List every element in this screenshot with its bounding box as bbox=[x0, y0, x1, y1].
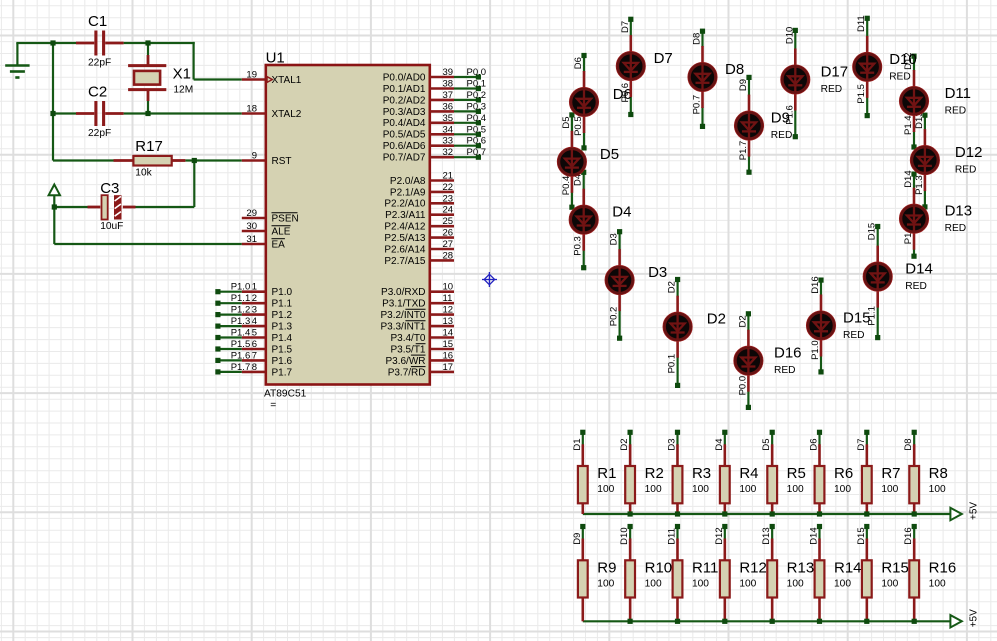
svg-text:100: 100 bbox=[645, 578, 662, 589]
svg-text:21: 21 bbox=[443, 171, 454, 182]
value 10uF (C3) bbox=[100, 221, 123, 232]
net label P1.5 (D10 bottom) bbox=[856, 84, 867, 104]
LED D12 bbox=[910, 129, 939, 191]
svg-text:D16: D16 bbox=[774, 345, 802, 362]
wire net D10 (above D17) bbox=[794, 30, 796, 49]
svg-text:25: 25 bbox=[443, 216, 454, 227]
svg-text:C2: C2 bbox=[88, 83, 107, 100]
value 100 (R13) bbox=[787, 578, 804, 589]
terminal P0.4 (D5 bottom) bbox=[569, 205, 574, 210]
svg-text:ALE: ALE bbox=[272, 226, 291, 237]
terminal P0.7 (D8 bottom) bbox=[700, 124, 705, 129]
svg-text:8: 8 bbox=[252, 362, 257, 373]
terminal P0.6 bbox=[476, 143, 481, 148]
value 12M (X1) bbox=[173, 84, 193, 95]
terminal D16 (D15 top) bbox=[818, 278, 823, 283]
terminal D10 bbox=[628, 524, 633, 529]
svg-text:18: 18 bbox=[246, 104, 257, 115]
resistor R16 leads bbox=[913, 539, 916, 622]
value RED (D11) bbox=[945, 106, 967, 117]
svg-text:17: 17 bbox=[443, 362, 454, 373]
svg-text:D16: D16 bbox=[903, 527, 914, 544]
svg-text:R2: R2 bbox=[645, 465, 664, 482]
svg-text:P2.6/A14: P2.6/A14 bbox=[384, 244, 426, 255]
wire net D16 (above D15) bbox=[820, 280, 822, 295]
svg-text:P1.7: P1.7 bbox=[231, 362, 251, 373]
svg-text:R14: R14 bbox=[834, 559, 862, 576]
label R4 bbox=[739, 465, 758, 482]
net label D7 bbox=[856, 438, 867, 450]
net label P0.4 bbox=[467, 113, 487, 124]
svg-text:P1.1: P1.1 bbox=[272, 299, 293, 310]
net label P0.5 (D6 bottom) bbox=[573, 116, 584, 136]
wire net P0.2 (below D3) bbox=[618, 310, 620, 338]
terminal P1.5 (D10 bottom) bbox=[865, 113, 870, 118]
svg-text:100: 100 bbox=[739, 578, 756, 589]
svg-text:37: 37 bbox=[443, 90, 454, 101]
svg-text:100: 100 bbox=[929, 578, 946, 589]
svg-text:P2.4/A12: P2.4/A12 bbox=[384, 222, 426, 233]
wire net P1.2 (below D13) bbox=[913, 249, 915, 257]
svg-text:22pF: 22pF bbox=[88, 58, 111, 69]
label R15 bbox=[881, 559, 909, 576]
LED D11 bbox=[899, 70, 928, 132]
terminal D9 bbox=[580, 524, 585, 529]
wire C1 right to corner bbox=[124, 42, 195, 44]
U1 right pin numbers bbox=[443, 67, 454, 373]
power terminal +5V (reset) bbox=[49, 185, 60, 208]
ground bbox=[5, 43, 29, 78]
net label P0.6 (D7 bottom) bbox=[620, 83, 631, 103]
terminal P0.0 (D16 bottom) bbox=[746, 405, 751, 410]
svg-text:D4: D4 bbox=[612, 204, 631, 221]
resistor R1 bbox=[578, 466, 588, 503]
LED D10 bbox=[853, 36, 882, 98]
wire net P1.0 (left) bbox=[218, 291, 242, 293]
resistor R7 leads bbox=[866, 444, 869, 514]
svg-text:10k: 10k bbox=[135, 167, 152, 178]
LED D5 bbox=[557, 131, 586, 193]
svg-text:P0.6/AD6: P0.6/AD6 bbox=[383, 141, 426, 152]
terminal P1.6 (D17 bottom) bbox=[793, 134, 798, 139]
svg-text:100: 100 bbox=[834, 484, 851, 495]
svg-text:23: 23 bbox=[443, 193, 454, 204]
svg-text:P3.6/WR: P3.6/WR bbox=[385, 356, 425, 367]
wire net P0.2 (right) bbox=[454, 99, 478, 101]
resistor R17 bbox=[133, 156, 171, 166]
svg-text:RED: RED bbox=[889, 71, 911, 82]
net label P1.4 bbox=[231, 328, 251, 339]
net label D15 bbox=[856, 527, 867, 544]
net label P1.6 (D17 bottom) bbox=[784, 105, 795, 125]
label D12 bbox=[955, 144, 983, 161]
net label P1.3 bbox=[231, 316, 251, 327]
svg-text:P3.5/T1: P3.5/T1 bbox=[390, 344, 425, 355]
resistor R14 leads bbox=[818, 539, 821, 622]
svg-text:RED: RED bbox=[905, 281, 927, 292]
label D4 bbox=[612, 204, 631, 221]
label R3 bbox=[692, 465, 711, 482]
net label D5 (D5 top) bbox=[561, 116, 572, 128]
terminal D2 (D2 top) bbox=[675, 277, 680, 282]
resistor R13 leads bbox=[771, 539, 774, 622]
svg-text:P0.4: P0.4 bbox=[467, 113, 487, 124]
junction R16/bus bbox=[912, 619, 917, 624]
wire net D7 (above D7) bbox=[630, 19, 632, 36]
svg-text:D2: D2 bbox=[737, 315, 748, 327]
terminal P1.2 bbox=[215, 312, 220, 317]
svg-text:P0.5/AD5: P0.5/AD5 bbox=[383, 130, 426, 141]
label R17 bbox=[135, 138, 163, 155]
svg-text:P3.1/TXD: P3.1/TXD bbox=[382, 299, 425, 310]
svg-text:100: 100 bbox=[597, 578, 614, 589]
terminal P1.4 bbox=[215, 335, 220, 340]
capacitor C2 leads bbox=[76, 112, 124, 115]
value 100 (R15) bbox=[881, 578, 898, 589]
U1 right pin stubs bbox=[430, 77, 454, 372]
svg-text:P1.6: P1.6 bbox=[231, 350, 251, 361]
resistor R4 bbox=[720, 466, 730, 503]
terminal P0.7 bbox=[476, 155, 481, 160]
net label P0.0 (D16 bottom) bbox=[737, 376, 748, 396]
junction R6/bus bbox=[817, 511, 822, 516]
svg-text:P3.4/T0: P3.4/T0 bbox=[390, 333, 425, 344]
power terminal +5V (row 2) bbox=[950, 615, 961, 627]
wire net P0.6 (right) bbox=[454, 145, 478, 147]
svg-text:P1.6: P1.6 bbox=[272, 356, 293, 367]
svg-text:RED: RED bbox=[821, 84, 843, 95]
terminal P0.6 (D7 bottom) bbox=[628, 112, 633, 117]
wire C3 row left bbox=[54, 206, 87, 208]
wire net P1.6 (below D17) bbox=[794, 110, 796, 137]
net label P1.6 bbox=[231, 350, 251, 361]
wire crystal bottom bbox=[147, 101, 149, 114]
svg-text:19: 19 bbox=[246, 70, 257, 81]
net label P0.4 (D5 bottom) bbox=[561, 176, 572, 196]
svg-text:PSEN: PSEN bbox=[272, 213, 299, 224]
LED D8 bbox=[688, 46, 717, 108]
net label D16 (D15 top) bbox=[810, 276, 821, 293]
label R11 bbox=[692, 559, 718, 576]
svg-text:R4: R4 bbox=[739, 465, 758, 482]
net label D14 bbox=[809, 527, 820, 544]
net label D1 bbox=[572, 438, 583, 450]
svg-text:13: 13 bbox=[443, 316, 454, 327]
net label D4 (D4 top) bbox=[573, 174, 584, 186]
label C3 bbox=[100, 180, 119, 197]
wire net P0.4 (below D5) bbox=[571, 192, 573, 207]
svg-text:P1.5: P1.5 bbox=[272, 344, 293, 355]
LED D6 bbox=[569, 71, 598, 133]
svg-text:100: 100 bbox=[881, 578, 898, 589]
junction R12/bus bbox=[722, 619, 727, 624]
wire net P0.7 (right) bbox=[454, 156, 478, 158]
svg-text:P1.4: P1.4 bbox=[231, 328, 251, 339]
svg-text:P2.3/A11: P2.3/A11 bbox=[385, 210, 426, 221]
terminal D12 (D11 top) bbox=[911, 54, 916, 59]
svg-text:R17: R17 bbox=[135, 138, 163, 155]
LED D9 bbox=[734, 95, 763, 157]
svg-text:P0.0: P0.0 bbox=[467, 67, 487, 78]
svg-text:P3.3/INT1: P3.3/INT1 bbox=[380, 322, 425, 333]
net label P1.1 (D14 bottom) bbox=[867, 306, 878, 326]
wire XTAL1 row bbox=[194, 78, 242, 80]
net label D7 (D7 top) bbox=[620, 21, 631, 33]
svg-text:RED: RED bbox=[945, 223, 967, 234]
svg-text:33: 33 bbox=[443, 136, 454, 147]
net label D8 (D8 top) bbox=[692, 33, 703, 45]
svg-text:D10: D10 bbox=[619, 527, 630, 544]
wire net D12 (above R12) bbox=[724, 527, 726, 540]
net label D11 (D10 top) bbox=[856, 15, 867, 32]
svg-text:D11: D11 bbox=[666, 528, 677, 545]
value 22pF (C1) bbox=[88, 58, 111, 69]
terminal P1.5 bbox=[215, 346, 220, 351]
net label D11 bbox=[666, 528, 677, 545]
svg-text:XTAL1: XTAL1 bbox=[272, 75, 302, 86]
wire net P1.1 (below D14) bbox=[877, 307, 879, 338]
capacitor C1 bbox=[96, 31, 104, 56]
wire crystal top bbox=[147, 43, 149, 55]
svg-text:32: 32 bbox=[443, 147, 454, 158]
svg-text:P0.0: P0.0 bbox=[737, 376, 748, 396]
net label P0.3 bbox=[467, 101, 487, 112]
value 100 (R16) bbox=[929, 578, 946, 589]
resistor R2 leads bbox=[629, 444, 632, 514]
wire RST junction down bbox=[193, 161, 195, 208]
power terminal +5V (row 1) bbox=[950, 508, 961, 520]
svg-text:D5: D5 bbox=[761, 438, 772, 450]
svg-text:P0.7/AD7: P0.7/AD7 bbox=[383, 153, 426, 164]
terminal P0.3 bbox=[476, 109, 481, 114]
net label P1.7 (D9 bottom) bbox=[738, 141, 749, 161]
wire net D14 (above D13) bbox=[913, 174, 915, 189]
net label P0.3 (D4 bottom) bbox=[573, 236, 584, 256]
terminal D15 bbox=[864, 524, 869, 529]
terminal P0.3 (D4 bottom) bbox=[581, 265, 586, 270]
label R13 bbox=[787, 559, 815, 576]
value 100 (R6) bbox=[834, 484, 851, 495]
svg-text:28: 28 bbox=[443, 250, 454, 261]
svg-text:P1.4: P1.4 bbox=[903, 115, 914, 135]
wire net D2 (above D2) bbox=[676, 280, 678, 297]
value 100 (R10) bbox=[645, 578, 662, 589]
resistor R12 bbox=[720, 560, 730, 597]
label R8 bbox=[929, 465, 948, 482]
terminal D12 bbox=[722, 524, 727, 529]
junction node RST bbox=[192, 158, 197, 163]
svg-text:15: 15 bbox=[443, 339, 454, 350]
wire net P1.5 (left) bbox=[218, 348, 242, 350]
terminal D6 bbox=[817, 430, 822, 435]
svg-text:P1.7: P1.7 bbox=[272, 367, 293, 378]
crystal X1 leads bbox=[147, 55, 150, 101]
svg-text:P1.2: P1.2 bbox=[272, 310, 293, 321]
svg-text:D12: D12 bbox=[714, 527, 725, 544]
svg-text:12: 12 bbox=[443, 305, 454, 316]
svg-text:P0.7: P0.7 bbox=[467, 147, 487, 158]
junction R8/bus bbox=[912, 511, 917, 516]
terminal P1.1 (D14 bottom) bbox=[875, 335, 880, 340]
junction node crystal top bbox=[145, 40, 150, 45]
wire net D3 (above D3) bbox=[618, 232, 620, 250]
wire R17 right to RST bbox=[185, 159, 241, 161]
svg-text:R13: R13 bbox=[787, 559, 815, 576]
terminal D10 (D17 top) bbox=[793, 28, 798, 33]
svg-text:P2.1/A9: P2.1/A9 bbox=[390, 187, 426, 198]
svg-text:D8: D8 bbox=[692, 33, 703, 45]
capacitor C1 leads bbox=[76, 42, 124, 45]
junction node gnd/C1 bbox=[50, 40, 55, 45]
label D5 bbox=[600, 146, 619, 163]
resistor R7 bbox=[862, 466, 872, 503]
svg-text:D6: D6 bbox=[613, 86, 632, 103]
wire net P0.0 (right) bbox=[454, 76, 478, 78]
wire net D7 (above R7) bbox=[866, 432, 868, 445]
terminal P0.5 bbox=[476, 132, 481, 137]
wire net P0.1 (below D2) bbox=[676, 357, 678, 386]
resistor R10 bbox=[625, 560, 635, 597]
svg-text:D1: D1 bbox=[572, 438, 583, 450]
svg-text:1: 1 bbox=[252, 282, 257, 293]
net label P0.6 bbox=[467, 136, 487, 147]
svg-text:11: 11 bbox=[443, 293, 453, 304]
svg-text:RED: RED bbox=[843, 330, 865, 341]
net label D3 bbox=[666, 438, 677, 450]
svg-text:P0.3: P0.3 bbox=[467, 101, 487, 112]
svg-text:35: 35 bbox=[443, 113, 454, 124]
net label D2 bbox=[619, 438, 630, 450]
junction R13/bus bbox=[770, 619, 775, 624]
terminal P1.7 bbox=[215, 369, 220, 374]
capacitor C3 leads bbox=[88, 206, 136, 209]
svg-text:5: 5 bbox=[252, 328, 257, 339]
wire net P1.1 (left) bbox=[218, 302, 242, 304]
net label P0.2 bbox=[467, 90, 487, 101]
svg-text:D14: D14 bbox=[903, 170, 914, 187]
terminal D13 (D12 top) bbox=[922, 113, 927, 118]
svg-text:34: 34 bbox=[443, 124, 454, 135]
value RED (D15) bbox=[843, 330, 865, 341]
svg-text:D9: D9 bbox=[738, 79, 749, 91]
wire net P1.7 (left) bbox=[218, 371, 242, 373]
LED D2 bbox=[663, 296, 692, 358]
svg-text:R8: R8 bbox=[929, 465, 948, 482]
svg-text:36: 36 bbox=[443, 101, 454, 112]
svg-text:P2.7/A15: P2.7/A15 bbox=[384, 256, 426, 267]
label D17 bbox=[821, 64, 849, 81]
value AT89C51 (U1) bbox=[264, 388, 307, 399]
wire net D6 (above R6) bbox=[818, 432, 820, 445]
svg-text:P1.2: P1.2 bbox=[231, 305, 251, 316]
net label P1.0 bbox=[231, 282, 251, 293]
value RED (D16) bbox=[774, 365, 796, 376]
label R1 bbox=[597, 465, 616, 482]
svg-text:D7: D7 bbox=[654, 50, 673, 67]
svg-text:P0.2/AD2: P0.2/AD2 bbox=[383, 95, 426, 106]
wire net D5 (above R5) bbox=[771, 432, 773, 445]
svg-text:12M: 12M bbox=[173, 84, 193, 95]
svg-text:100: 100 bbox=[645, 484, 662, 495]
svg-text:R15: R15 bbox=[881, 559, 909, 576]
svg-text:RED: RED bbox=[945, 106, 967, 117]
wire C2 row left bbox=[53, 112, 76, 114]
terminal D14 (D13 top) bbox=[911, 172, 916, 177]
terminal P0.1 bbox=[476, 86, 481, 91]
svg-text:P0.0/AD0: P0.0/AD0 bbox=[383, 72, 426, 83]
svg-text:D11: D11 bbox=[945, 85, 971, 102]
svg-text:22: 22 bbox=[443, 182, 454, 193]
label D13 bbox=[945, 203, 973, 220]
value RED (D12) bbox=[955, 165, 977, 176]
wire net D12 (above D11) bbox=[913, 56, 915, 71]
resistor R13 bbox=[767, 560, 777, 597]
net label P1.3 (D12 bottom) bbox=[914, 175, 925, 195]
wire RST row left bbox=[53, 159, 114, 161]
net label D3 (D3 top) bbox=[609, 233, 620, 245]
wire net P1.3 (left) bbox=[218, 325, 242, 327]
label D7 bbox=[654, 50, 673, 67]
wire net D1 (above R1) bbox=[582, 432, 584, 445]
svg-text:D3: D3 bbox=[609, 233, 620, 245]
wire left vertical bus bbox=[52, 43, 54, 161]
svg-text:P0.6: P0.6 bbox=[467, 136, 487, 147]
U1 left pin numbers bbox=[246, 70, 257, 373]
label C2 bbox=[88, 83, 107, 100]
wire C3 row right bbox=[136, 206, 195, 208]
wire net D10 (above R10) bbox=[629, 527, 631, 540]
terminal D9 (D9 top) bbox=[746, 75, 751, 80]
net label D13 bbox=[761, 527, 772, 544]
terminal P1.7 (D9 bottom) bbox=[746, 170, 751, 175]
svg-text:100: 100 bbox=[597, 484, 614, 495]
net label P0.7 bbox=[467, 147, 487, 158]
terminal D2 bbox=[628, 430, 633, 435]
crystal X1 bbox=[128, 66, 166, 90]
svg-text:100: 100 bbox=[834, 578, 851, 589]
svg-text:100: 100 bbox=[881, 484, 898, 495]
label D9 bbox=[771, 110, 790, 127]
svg-text:P0.3/AD3: P0.3/AD3 bbox=[383, 107, 426, 118]
svg-text:R7: R7 bbox=[881, 465, 900, 482]
svg-text:24: 24 bbox=[443, 205, 454, 216]
net label P0.7 (D8 bottom) bbox=[692, 95, 703, 115]
net label P0.0 bbox=[467, 67, 487, 78]
svg-text:R3: R3 bbox=[692, 465, 711, 482]
svg-text:RED: RED bbox=[955, 165, 977, 176]
wire net D8 (above D8) bbox=[701, 31, 703, 47]
svg-text:D3: D3 bbox=[648, 264, 667, 281]
net label D13 (D12 top) bbox=[914, 111, 925, 128]
svg-text:P2.2/A10: P2.2/A10 bbox=[384, 199, 426, 210]
svg-text:10: 10 bbox=[443, 282, 454, 293]
label D16 bbox=[774, 345, 802, 362]
wire net P1.6 (left) bbox=[218, 359, 242, 361]
terminal D5 (D5 top) bbox=[569, 112, 574, 117]
svg-text:P0.1: P0.1 bbox=[467, 79, 487, 90]
terminal D8 bbox=[912, 430, 917, 435]
terminal D4 (D4 top) bbox=[581, 170, 586, 175]
terminal P0.5 (D6 bottom) bbox=[581, 145, 586, 150]
wire net D4 (above D4) bbox=[583, 172, 585, 189]
svg-text:D15: D15 bbox=[843, 310, 871, 327]
wire crystal junction to XTAL2 bbox=[148, 112, 242, 114]
net label D12 (D11 top) bbox=[903, 52, 914, 69]
svg-text:D15: D15 bbox=[867, 223, 878, 240]
resistor R11 leads bbox=[676, 539, 679, 622]
svg-text:R9: R9 bbox=[597, 559, 616, 576]
svg-text:P2.0/A8: P2.0/A8 bbox=[390, 176, 426, 187]
